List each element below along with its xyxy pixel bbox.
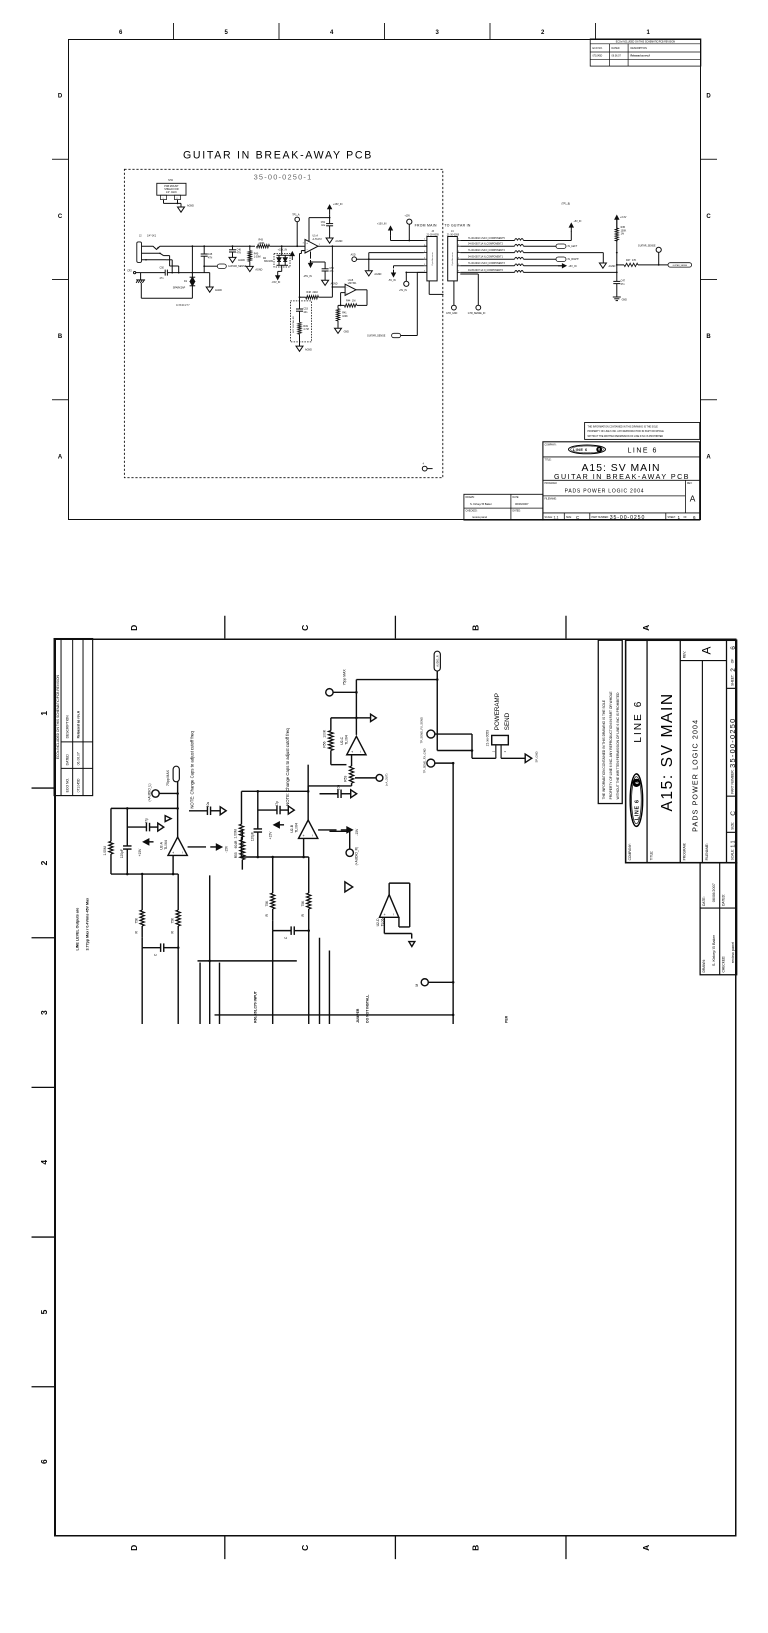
svg-text:1.00M: 1.00M xyxy=(254,256,261,259)
svg-text:A: A xyxy=(706,454,711,460)
svg-text:100K: 100K xyxy=(323,729,327,738)
svg-text:C: C xyxy=(284,936,288,939)
capacitor C50 xyxy=(164,270,166,276)
svg-text:47N: 47N xyxy=(237,252,242,255)
svg-text:4: 4 xyxy=(39,1160,49,1165)
svg-text:PROPERTY OF LINE 6 INC. ANY R: PROPERTY OF LINE 6 INC. ANY REPRODUCTION… xyxy=(609,691,613,800)
svg-text:AGND: AGND xyxy=(238,259,245,262)
svg-text:−: − xyxy=(358,750,363,753)
svg-text:DATED: DATED xyxy=(66,754,70,766)
svg-text:D: D xyxy=(58,94,63,100)
svg-text:1.1: 1.1 xyxy=(554,515,559,519)
svg-text:1: 1 xyxy=(678,515,681,520)
wire J4 row 1 with ferrite bead xyxy=(460,240,514,242)
ground AGND (C46) xyxy=(229,257,236,262)
ground arrow (stage C) xyxy=(356,717,370,719)
svg-text:35-00-0250: 35-00-0250 xyxy=(610,515,646,521)
svg-text:SIZE:: SIZE: xyxy=(566,517,572,519)
svg-text:8 pin flex conn: 8 pin flex conn xyxy=(452,253,454,266)
svg-text:4: 4 xyxy=(458,257,459,259)
poweramp send connector J5 xyxy=(492,735,509,744)
revision table xyxy=(590,39,701,66)
wire U1A feedback xyxy=(301,250,305,252)
resistor Ra input xyxy=(140,910,144,926)
svg-text:R56: R56 xyxy=(323,741,327,747)
svg-text:+: + xyxy=(306,241,308,245)
svg-text:SH4: SH4 xyxy=(168,179,173,182)
svg-text:120pF: 120pF xyxy=(120,849,124,858)
svg-text:1/4" JACK: 1/4" JACK xyxy=(166,191,177,194)
svg-text:C: C xyxy=(730,811,737,816)
power +15V (op-amp) xyxy=(279,824,284,826)
wire feedback loop xyxy=(177,808,179,837)
svg-text:C: C xyxy=(706,214,711,220)
wire U1B inputs xyxy=(332,286,345,288)
wire spark gap return loop xyxy=(141,297,192,299)
svg-text:AGND: AGND xyxy=(187,205,194,208)
svg-text:GUITAR IN BREAK-AWAY PCB: GUITAR IN BREAK-AWAY PCB xyxy=(554,473,690,481)
connector J4 8-pin flex xyxy=(448,237,458,281)
title block xyxy=(543,442,700,521)
ground AGND (C52) xyxy=(322,280,329,285)
svg-text:4: 4 xyxy=(424,257,425,259)
svg-text:R: R xyxy=(265,913,269,916)
svg-text:47p: 47p xyxy=(275,801,279,807)
svg-text:D: D xyxy=(129,1545,139,1551)
svg-text:AGND: AGND xyxy=(305,349,312,352)
op-amp U2C TL064 xyxy=(347,736,366,754)
svg-text:1M: 1M xyxy=(352,300,355,303)
svg-text:NOTE: Change Caps to adjust cu: NOTE: Change Caps to adjust cutoff freq xyxy=(190,731,195,809)
svg-text:PROGRAM:: PROGRAM: xyxy=(683,843,687,861)
resistor R56 feedback xyxy=(328,731,333,751)
wire long audio bus xyxy=(215,1014,454,1016)
svg-text:3: 3 xyxy=(424,251,425,253)
svg-text:LINE 6: LINE 6 xyxy=(633,700,644,743)
power +15V_IN (row1) xyxy=(570,231,572,241)
wire J4 row 2 with ferrite bead xyxy=(460,245,514,247)
svg-text:5: 5 xyxy=(458,264,459,266)
sheet border frame xyxy=(55,639,736,1536)
svg-text:A: A xyxy=(58,454,63,460)
wire J4 row 3 with ferrite bead xyxy=(460,252,514,254)
svg-text:R48: R48 xyxy=(307,291,312,294)
sheet 1: guitar in break-away PCB xyxy=(0,0,768,559)
capacitor C47 xyxy=(616,280,618,282)
wire U2A output row xyxy=(177,782,179,809)
svg-text:-15V_IN: -15V_IN xyxy=(272,281,281,284)
svg-text:3.77pp Max / 0.4Vrms 45V Max: 3.77pp Max / 0.4Vrms 45V Max xyxy=(85,897,89,951)
svg-text:C: C xyxy=(300,625,310,631)
svg-text:TL064: TL064 xyxy=(344,735,348,745)
svg-text:PADS POWER LOGIC 2004: PADS POWER LOGIC 2004 xyxy=(565,488,645,494)
svg-text:47p: 47p xyxy=(144,818,148,824)
svg-text:R59: R59 xyxy=(344,776,348,782)
break-away PCB dashed outline 35-00-0250-1 xyxy=(124,169,442,477)
svg-text:WITHOUT THE WRITTEN PERMISSION: WITHOUT THE WRITTEN PERMISSION OF LINE 6… xyxy=(616,692,620,800)
svg-text:LM7301: LM7301 xyxy=(348,282,357,285)
svg-text:DRAWN:: DRAWN: xyxy=(702,959,706,972)
svg-text:-5V_IN: -5V_IN xyxy=(388,279,396,282)
svg-text:GUITAR_SENSE: GUITAR_SENSE xyxy=(228,265,247,268)
svg-text:PADS POWER LOGIC 2004: PADS POWER LOGIC 2004 xyxy=(691,719,699,832)
sheet 2: SV MAIN (rotated) xyxy=(0,542,768,1633)
capacitor input coupling xyxy=(273,930,291,932)
svg-text:GUITAR IN BREAK-AWAY PCB: GUITAR IN BREAK-AWAY PCB xyxy=(183,150,373,162)
svg-text:071045D: 071045D xyxy=(76,778,80,792)
svg-text:10n: 10n xyxy=(303,311,308,314)
svg-text:75K: 75K xyxy=(170,917,174,924)
svg-text:−: − xyxy=(179,850,184,853)
capacitor C46 xyxy=(232,246,234,250)
svg-text:10u: 10u xyxy=(206,802,210,808)
svg-text:+: + xyxy=(349,750,354,753)
svg-text:C50: C50 xyxy=(160,267,165,270)
svg-text:DATED: DATED xyxy=(612,47,620,50)
svg-text:47K: 47K xyxy=(632,259,637,262)
svg-text:THE INFORMATION CONTAINED IN T: THE INFORMATION CONTAINED IN THIS DRAWIN… xyxy=(602,699,606,799)
svg-text:R55: R55 xyxy=(234,852,238,858)
wire U2D feedback rect xyxy=(388,883,390,894)
svg-text:CHECKED:: CHECKED: xyxy=(466,511,478,513)
svg-text:1: 1 xyxy=(458,239,459,241)
svg-text:(TP1_B): (TP1_B) xyxy=(562,204,571,206)
power -15V (op-amp) xyxy=(188,846,206,848)
resistor R44 feedback xyxy=(341,304,345,306)
capacitor C52 xyxy=(311,261,326,263)
wire R43 to op-amp xyxy=(270,245,306,247)
connector J3 8-pin flex xyxy=(427,237,437,281)
test point +AUDIO_R xyxy=(346,849,353,856)
wire J4 row 6 with ferrite bead xyxy=(460,271,514,273)
svg-text:OF: OF xyxy=(684,517,688,519)
resistor R43 100R xyxy=(257,245,270,248)
svg-text:6: 6 xyxy=(693,515,696,520)
ground triangle (stage B) xyxy=(345,882,353,892)
svg-text:221K: 221K xyxy=(313,291,319,294)
svg-text:6: 6 xyxy=(39,1459,49,1464)
capacitor feedback U2-B xyxy=(257,832,259,857)
svg-text:LINE 6: LINE 6 xyxy=(635,799,641,820)
wire lower rails stage A xyxy=(199,963,201,1024)
svg-text:CF2: CF2 xyxy=(127,270,132,273)
svg-text:DATE:: DATE: xyxy=(513,496,520,499)
svg-text:S. Kirkey/ B Baker: S. Kirkey/ B Baker xyxy=(712,934,716,966)
svg-text:4.7M: 4.7M xyxy=(303,328,308,331)
resistor R55 output xyxy=(240,840,245,860)
resistor R49 4.7M (DNI) xyxy=(298,322,301,334)
svg-text:SHEET:: SHEET: xyxy=(731,674,735,685)
svg-text:04-05-0007 1A N_COMPONENT2: 04-05-0007 1A N_COMPONENT2 xyxy=(468,243,504,246)
svg-text:−: − xyxy=(310,833,315,836)
svg-text:5: 5 xyxy=(424,264,425,266)
svg-text:71-00-0002 1.5A N_COMPONENT4: 71-00-0002 1.5A N_COMPONENT4 xyxy=(468,249,505,252)
svg-text:+: + xyxy=(301,834,306,837)
capacitor C51 xyxy=(326,223,333,225)
diode pair D2 BAV199 clamp xyxy=(274,254,290,268)
svg-text:4: 4 xyxy=(330,30,334,36)
wire input rails xyxy=(141,948,143,1024)
svg-text:21-30-0059: 21-30-0059 xyxy=(447,233,460,236)
test point MT1 xyxy=(422,466,427,471)
capacitor decouple + ground xyxy=(189,810,207,812)
svg-text:100K: 100K xyxy=(342,315,348,318)
power -15V_IN (op-amp) xyxy=(310,252,312,259)
svg-text:35-00-0250: 35-00-0250 xyxy=(728,717,737,767)
svg-text:R: R xyxy=(170,930,174,933)
svg-text:8 pin flex conn: 8 pin flex conn xyxy=(432,253,434,266)
svg-text:A-TL072: A-TL072 xyxy=(313,238,323,241)
zone labels xyxy=(39,625,651,1551)
svg-text:(+AUDIO_L): (+AUDIO_L) xyxy=(148,784,152,802)
svg-text:D: D xyxy=(129,625,139,631)
svg-text:2: 2 xyxy=(541,30,545,36)
svg-text:M: M xyxy=(415,984,419,987)
svg-text:-15V: -15V xyxy=(224,845,228,853)
svg-text:+15V_IN: +15V_IN xyxy=(333,203,343,206)
svg-text:IN_LEFT: IN_LEFT xyxy=(568,245,578,248)
svg-text:SCALE:: SCALE: xyxy=(545,516,554,519)
svg-text:CHECKED:: CHECKED: xyxy=(722,956,726,973)
wire chassis row xyxy=(141,272,166,274)
svg-text:GND: GND xyxy=(344,331,350,334)
svg-text:1.00M: 1.00M xyxy=(234,829,238,838)
power +15V_IN (J3) xyxy=(390,230,392,236)
svg-text:R: R xyxy=(134,930,138,933)
svg-text:21-xx-0059: 21-xx-0059 xyxy=(486,730,490,746)
op-amp U2-A TL064 xyxy=(168,837,187,855)
svg-text:(+AUDIO_R): (+AUDIO_R) xyxy=(355,847,359,866)
svg-text:DO NOT INSTALL: DO NOT INSTALL xyxy=(365,995,369,1023)
svg-text:AGD: AGD xyxy=(351,253,356,256)
net tag GUITAR_SENSE (left) xyxy=(204,265,217,267)
zone ticks xyxy=(32,616,566,1559)
svg-text:+: + xyxy=(171,851,176,854)
ground AGND (C51) xyxy=(326,238,333,243)
revision table xyxy=(54,639,93,796)
svg-text:LINE 6: LINE 6 xyxy=(573,448,588,452)
svg-text:06/06/2007: 06/06/2007 xyxy=(515,502,529,506)
svg-text:B: B xyxy=(706,334,711,340)
svg-text:Released as rev.A: Released as rev.A xyxy=(76,710,80,738)
svg-text:review panel: review panel xyxy=(472,515,487,519)
svg-text:COMPANY:: COMPANY: xyxy=(628,843,632,860)
svg-text:2: 2 xyxy=(177,198,178,200)
svg-text:ECO NO.: ECO NO. xyxy=(593,47,603,50)
svg-text:B: B xyxy=(470,625,480,631)
drawn-date table xyxy=(700,863,737,975)
wire pin2 to ground xyxy=(500,756,502,759)
wire stage B lower rails xyxy=(319,938,321,1024)
svg-text:ECOs INCLUDED ON THIS SCHEMATI: ECOs INCLUDED ON THIS SCHEMATIC/PCB REVI… xyxy=(56,674,60,759)
svg-text:R60,R61,C70 INPUT: R60,R61,C70 INPUT xyxy=(254,990,258,1023)
svg-text:4: 4 xyxy=(423,463,425,465)
ground AGND (shield) xyxy=(178,207,185,212)
svg-text:TL064: TL064 xyxy=(294,823,298,833)
wire J3 bottom pin out xyxy=(428,281,430,295)
svg-text:1%: 1% xyxy=(621,233,625,236)
resistor R41 100K xyxy=(337,305,339,308)
svg-text:IN_RIGHT: IN_RIGHT xyxy=(568,258,580,261)
svg-text:S. Kirkey/ B Baker: S. Kirkey/ B Baker xyxy=(470,502,492,506)
svg-text:75pp MAX: 75pp MAX xyxy=(166,769,170,786)
svg-text:COMPANY:: COMPANY: xyxy=(545,444,557,447)
svg-text:AGND: AGND xyxy=(215,289,222,292)
svg-text:+3.3V: +3.3V xyxy=(620,216,627,219)
svg-text:35-00-0250-1: 35-00-0250-1 xyxy=(254,173,313,182)
svg-text:A: A xyxy=(699,646,713,654)
svg-text:TP1_A: TP1_A xyxy=(292,214,300,217)
svg-text:+5V_IN: +5V_IN xyxy=(399,290,407,292)
svg-text:PART NUMBER:: PART NUMBER: xyxy=(592,516,609,519)
test point GTR_GND xyxy=(452,305,457,310)
svg-text:SCALE:: SCALE: xyxy=(731,849,735,861)
svg-text:PROPERTY OF LINE 6 INC. ANY R: PROPERTY OF LINE 6 INC. ANY REPRODUCTION… xyxy=(588,430,665,433)
svg-text:R47: R47 xyxy=(626,259,631,262)
svg-text:OF: OF xyxy=(731,659,735,664)
svg-text:+5V_IN: +5V_IN xyxy=(574,221,582,223)
svg-text:2: 2 xyxy=(303,251,304,253)
title block xyxy=(626,640,737,862)
svg-text:04-05-0007 1A N_COMPONENT1: 04-05-0007 1A N_COMPONENT1 xyxy=(468,256,504,259)
capacitor feedback U2-A xyxy=(126,849,128,874)
svg-text:2: 2 xyxy=(39,860,49,865)
svg-text:47n: 47n xyxy=(160,277,165,280)
svg-text:6: 6 xyxy=(598,448,600,452)
capacitor C45 xyxy=(201,253,208,255)
svg-text:6: 6 xyxy=(119,30,123,36)
svg-text:04-05-0007 1A N_COMPONENT6: 04-05-0007 1A N_COMPONENT6 xyxy=(468,269,504,272)
ground AGND (J4 row3) xyxy=(602,253,604,263)
power +5V_IN (J4) xyxy=(558,265,563,267)
svg-text:1: 1 xyxy=(319,244,320,246)
svg-text:DESCRIPTION: DESCRIPTION xyxy=(66,715,70,739)
resistor U2C input xyxy=(307,786,309,791)
svg-text:2: 2 xyxy=(458,244,459,246)
svg-text:-15V: -15V xyxy=(355,828,359,836)
svg-text:WITHOUT THE WRITTEN PERMISSION: WITHOUT THE WRITTEN PERMISSION OF LINE 6… xyxy=(588,436,664,438)
svg-text:06.06.07: 06.06.07 xyxy=(76,752,80,765)
main wire jack to R43 xyxy=(192,245,255,247)
wire J3 row3 xyxy=(369,252,424,254)
svg-text:3: 3 xyxy=(458,251,459,253)
test point TP5 (+5V) xyxy=(404,281,409,286)
svg-text:POWERAMP: POWERAMP xyxy=(494,693,501,730)
svg-text:R: R xyxy=(301,913,305,916)
wire J4 row 5 with ferrite bead xyxy=(460,265,514,267)
svg-text:DESCRIPTION: DESCRIPTION xyxy=(631,47,648,50)
svg-text:SIZE:: SIZE: xyxy=(731,822,735,830)
resistor R48 221K xyxy=(306,296,319,299)
op-amp U2-B TL064 xyxy=(299,820,318,838)
comparator U1B LM7301 xyxy=(345,284,356,295)
sheet border frame xyxy=(69,40,701,520)
wire op-amp out to J3 xyxy=(318,245,427,247)
svg-text:6: 6 xyxy=(634,781,639,784)
svg-text:B: B xyxy=(470,1545,480,1551)
svg-text:−: − xyxy=(391,912,396,915)
ground GND (input) xyxy=(206,287,213,292)
svg-text:75K: 75K xyxy=(301,900,305,907)
svg-text:1: 1 xyxy=(39,711,49,716)
svg-text:THE INFORMATION CONTAINED IN T: THE INFORMATION CONTAINED IN THIS DRAWIN… xyxy=(588,425,659,428)
svg-text:FROM MAIN: FROM MAIN xyxy=(415,223,437,227)
svg-text:1.1: 1.1 xyxy=(730,840,736,847)
svg-text:C: C xyxy=(58,214,63,220)
svg-text:AGND: AGND xyxy=(331,283,338,286)
svg-text:47u: 47u xyxy=(329,270,334,273)
svg-text:PROGRAM:: PROGRAM: xyxy=(545,482,558,485)
wire +15V decoupling loop xyxy=(308,218,310,241)
svg-text:+15V: +15V xyxy=(138,848,142,857)
svg-text:10u: 10u xyxy=(321,224,326,227)
svg-text:GND: GND xyxy=(622,298,628,301)
wire jack tip to main node xyxy=(166,245,192,247)
capacitor C2 U2-B xyxy=(258,809,277,811)
net tag +AUDIO_R (bus) xyxy=(434,651,440,671)
svg-text:6: 6 xyxy=(730,646,737,650)
wire shield to ground xyxy=(163,200,165,204)
svg-text:R44: R44 xyxy=(346,300,351,303)
svg-text:DRAWN:: DRAWN: xyxy=(466,496,476,499)
svg-text:GUITAR_SENSE: GUITAR_SENSE xyxy=(638,244,656,247)
svg-text:review panel: review panel xyxy=(731,942,735,964)
svg-text:GUITAR_SENSE: GUITAR_SENSE xyxy=(673,264,688,267)
wire input rails xyxy=(272,931,274,1024)
resistor R47 xyxy=(624,263,638,266)
svg-text:SEND: SEND xyxy=(504,712,511,730)
resistor R40 1.00M xyxy=(249,246,251,250)
wire U2C output to audio tag xyxy=(355,680,357,735)
test point TP FX_SEND_GND xyxy=(427,759,435,767)
wire bus stage C xyxy=(436,680,438,751)
svg-text:GTR_SENSE_IN: GTR_SENSE_IN xyxy=(468,313,486,315)
svg-text:47n: 47n xyxy=(621,283,626,286)
svg-text:SPARK2AP: SPARK2AP xyxy=(173,286,186,289)
svg-text:A15: SV MAIN: A15: SV MAIN xyxy=(659,692,676,811)
svg-text:2: 2 xyxy=(730,668,737,672)
svg-text:ECOs INCLUDED ON THIS SCHEMATI: ECOs INCLUDED ON THIS SCHEMATIC/PCB REVI… xyxy=(616,40,676,43)
svg-text:A: A xyxy=(690,494,696,504)
svg-text:5: 5 xyxy=(225,30,229,36)
op-amp U2D TL064 follower xyxy=(380,895,399,918)
svg-text:TITLE:: TITLE: xyxy=(649,851,653,861)
svg-text:1N5404/77: 1N5404/77 xyxy=(176,303,190,307)
power +15V_IN (op-amp) xyxy=(329,208,331,214)
svg-text:PER: PER xyxy=(504,1015,508,1023)
wire feedback loop xyxy=(307,791,309,820)
svg-text:A: A xyxy=(641,625,651,631)
svg-text:AGND: AGND xyxy=(374,273,381,276)
wire sense row xyxy=(617,264,624,266)
ground GND (R41) xyxy=(335,328,342,333)
resistor Ra input xyxy=(271,893,275,909)
disclaimer note box xyxy=(598,640,622,803)
svg-text:AGND: AGND xyxy=(335,240,342,243)
svg-text:DATE:: DATE: xyxy=(702,896,706,905)
svg-text:FILENAME:: FILENAME: xyxy=(545,498,557,501)
svg-text:+15V_IN: +15V_IN xyxy=(377,223,387,226)
ground triangle (U2D) xyxy=(383,917,385,933)
svg-text:2: 2 xyxy=(504,750,507,752)
power +15V_IN (clamp) xyxy=(288,254,292,256)
svg-text:06.06.07: 06.06.07 xyxy=(612,55,622,58)
svg-text:(+A_OUT): (+A_OUT) xyxy=(384,774,388,786)
svg-text:REV:: REV: xyxy=(683,651,687,659)
svg-text:21-30-0059: 21-30-0059 xyxy=(427,233,440,236)
wire U2B output row xyxy=(307,765,309,792)
svg-text:71-00-0002 1.5A N_COMPONENT5: 71-00-0002 1.5A N_COMPONENT5 xyxy=(468,237,505,240)
